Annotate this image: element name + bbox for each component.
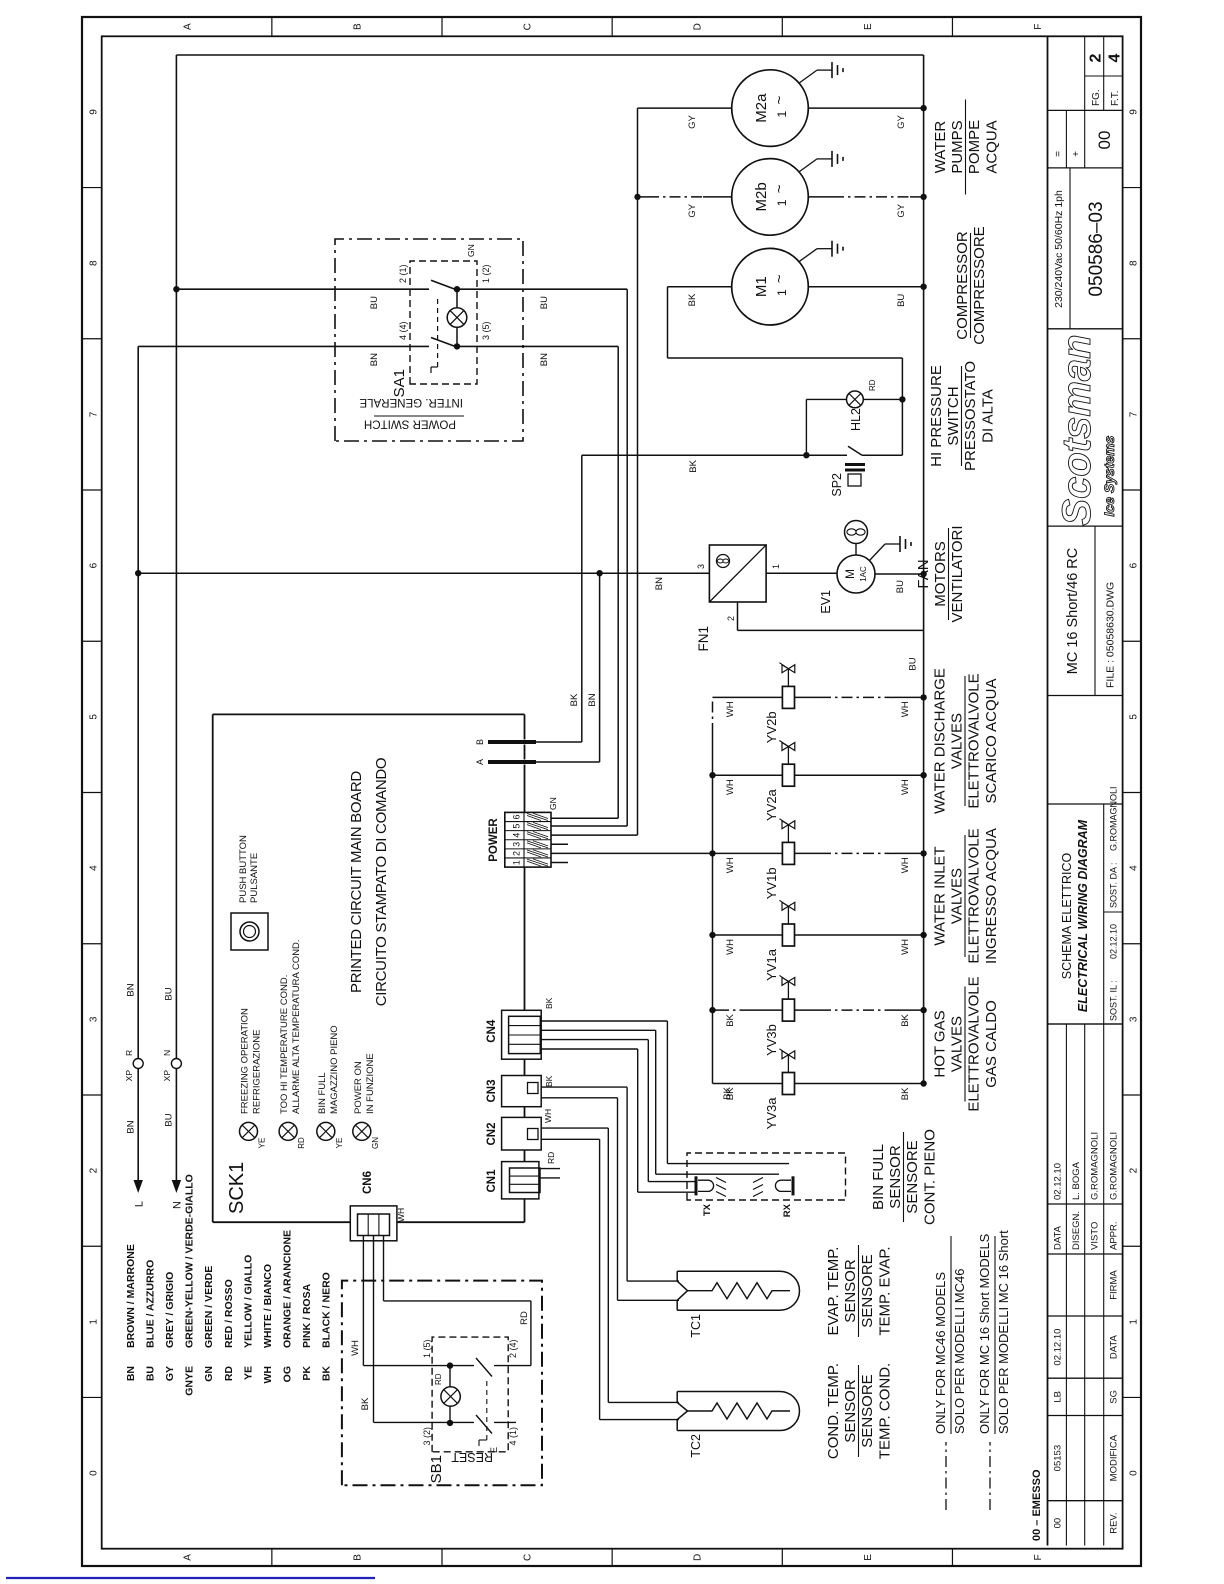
LED indicator 4 GN	[353, 1122, 371, 1140]
svg-text:GREEN / VERDE: GREEN / VERDE	[203, 1266, 215, 1348]
svg-text:COND. TEMP.: COND. TEMP.	[825, 1363, 842, 1459]
svg-text:1: 1	[512, 860, 522, 865]
motor M2b	[732, 159, 809, 236]
wire BU drop into SA1	[176, 288, 429, 290]
svg-text:YV3a: YV3a	[764, 1097, 779, 1130]
svg-text:RESET: RESET	[451, 1450, 493, 1464]
svg-text:M: M	[843, 569, 857, 579]
svg-text:YV1a: YV1a	[764, 948, 779, 981]
svg-text:BROWN / MARRONE: BROWN / MARRONE	[125, 1244, 137, 1348]
svg-text:DATA: DATA	[1052, 1225, 1063, 1250]
svg-text:M2a: M2a	[753, 93, 770, 123]
supply terminal N with arrow	[172, 1180, 181, 1193]
wire M2b feed	[638, 196, 649, 198]
svg-text:5: 5	[512, 824, 522, 829]
connector POWER on main board	[505, 812, 551, 867]
svg-text:A: A	[182, 1554, 193, 1561]
svg-text:VENTILATORI: VENTILATORI	[949, 526, 966, 623]
svg-text:BN: BN	[539, 353, 550, 366]
lamp RD inside SB1	[449, 1406, 451, 1423]
svg-text:SENSOR: SENSOR	[887, 1145, 904, 1209]
svg-text:3 (5): 3 (5)	[481, 321, 491, 340]
svg-text:SG: SG	[1109, 1390, 1120, 1404]
zone number strip ticks and digits	[82, 1396, 102, 1398]
svg-text:N: N	[172, 1201, 184, 1209]
svg-text:FAN: FAN	[915, 559, 932, 588]
svg-text:SCARICO ACQUA: SCARICO ACQUA	[983, 678, 1000, 803]
svg-text:VALVES: VALVES	[949, 868, 966, 924]
svg-text:WH: WH	[900, 857, 911, 873]
svg-text:WATER INLET: WATER INLET	[932, 846, 949, 945]
LED indicator 1 YE	[240, 1122, 258, 1140]
svg-text:GY: GY	[164, 1366, 176, 1381]
svg-text:YE: YE	[335, 1138, 344, 1149]
svg-text:BN: BN	[126, 1120, 137, 1133]
svg-text:FILE : 05058630.DWG: FILE : 05058630.DWG	[1105, 582, 1117, 688]
svg-text:DI ALTA: DI ALTA	[980, 389, 997, 443]
wire valve feed bus drop from POWER pin 2	[551, 852, 713, 854]
svg-text:G.ROMAGNOLI: G.ROMAGNOLI	[1090, 1132, 1101, 1200]
svg-text:FN1: FN1	[696, 626, 711, 652]
svg-text:~: ~	[771, 184, 788, 193]
lamp HL2	[847, 391, 864, 408]
svg-text:ELECTRICAL WIRING DIAGRAM: ELECTRICAL WIRING DIAGRAM	[1076, 819, 1090, 1012]
wire CN2 pin 1 to TC2	[541, 1127, 608, 1129]
svg-text:POWER: POWER	[488, 818, 500, 862]
svg-text:E: E	[863, 1554, 874, 1561]
wire N rail BU	[175, 55, 177, 1180]
svg-text:BK: BK	[321, 1366, 333, 1382]
svg-text:4 (4): 4 (4)	[398, 321, 408, 340]
svg-text:YV3b: YV3b	[764, 1024, 779, 1056]
svg-text:GN: GN	[203, 1366, 215, 1382]
connector CN4	[502, 1010, 542, 1059]
note only for MC46 models	[945, 1442, 947, 1510]
svg-text:02.12.10: 02.12.10	[1109, 924, 1119, 959]
wire SP2 output to M1 feed	[901, 358, 903, 455]
svg-text:WH: WH	[725, 939, 736, 955]
svg-text:Scotsman: Scotsman	[1055, 334, 1099, 525]
svg-text:02.12.10: 02.12.10	[1052, 1329, 1063, 1366]
svg-text:WH: WH	[396, 1208, 406, 1222]
svg-text:MAGAZZINO PIENO: MAGAZZINO PIENO	[329, 1025, 340, 1114]
svg-text:1: 1	[88, 1319, 99, 1325]
svg-text:YV2a: YV2a	[764, 788, 779, 821]
printed circuit main board box	[212, 714, 214, 1222]
node HL2 output	[899, 396, 905, 402]
wire FN1 pin 1 to EV1	[766, 572, 837, 574]
plug XP contact R on L line	[133, 1059, 143, 1069]
svg-text:DATA: DATA	[1109, 1334, 1120, 1359]
svg-text:EV1: EV1	[819, 590, 833, 614]
svg-text:VISTO: VISTO	[1090, 1222, 1101, 1250]
svg-text:POWER SWITCH: POWER SWITCH	[364, 418, 456, 430]
svg-text:SOLO PER MODELLI MC 16 Short: SOLO PER MODELLI MC 16 Short	[996, 1230, 1011, 1434]
svg-text:RD: RD	[297, 1137, 306, 1149]
svg-text:MOTORS: MOTORS	[932, 541, 949, 607]
svg-text:BU: BU	[896, 294, 907, 307]
svg-text:1: 1	[1129, 1319, 1140, 1325]
svg-text:BK: BK	[360, 1397, 371, 1410]
svg-text:GY: GY	[896, 114, 907, 128]
svg-text:EVAP. TEMP.: EVAP. TEMP.	[825, 1247, 842, 1336]
wire GY pumps feed from POWER pin 4	[551, 834, 638, 836]
svg-text:3: 3	[696, 564, 706, 569]
wire BK from terminal B to SP2	[536, 741, 582, 743]
ground M2b	[799, 159, 817, 172]
wire BN trunk from L rail to FN1	[138, 572, 709, 574]
LED indicator 3 YE	[317, 1122, 335, 1140]
svg-text:2: 2	[726, 616, 736, 621]
ground M1	[799, 249, 817, 262]
neutral return rail	[923, 55, 925, 1084]
OP1 RX LED	[792, 1176, 795, 1195]
svg-text:BLUE / AZZURRO: BLUE / AZZURRO	[145, 1260, 157, 1348]
terminal B spade on board	[488, 740, 536, 744]
svg-text:ELETTROVALVOLE: ELETTROVALVOLE	[966, 673, 983, 808]
fan motor EV1	[837, 555, 875, 593]
svg-text:L: L	[134, 1201, 146, 1207]
svg-text:IN FUNZIONE: IN FUNZIONE	[365, 1053, 376, 1114]
temperature sensor TC1	[676, 1300, 678, 1310]
svg-text:3 (2): 3 (2)	[422, 1427, 432, 1446]
svg-text:ALLARME ALTA TEMPERATURA COND.: ALLARME ALTA TEMPERATURA COND.	[291, 939, 302, 1114]
svg-text:RD: RD	[223, 1366, 235, 1382]
svg-text:HI PRESSURE: HI PRESSURE	[928, 365, 945, 467]
svg-text:~: ~	[771, 95, 788, 104]
svg-text:1: 1	[775, 110, 789, 117]
solenoid valve YV2a	[713, 774, 783, 776]
svg-text:WHITE / BIANCO: WHITE / BIANCO	[262, 1264, 274, 1348]
svg-text:SENSOR: SENSOR	[842, 1259, 859, 1323]
svg-text:M1: M1	[753, 276, 770, 297]
svg-text:YE: YE	[242, 1366, 254, 1380]
svg-text:POMPE: POMPE	[966, 120, 983, 174]
svg-text:8: 8	[1129, 260, 1140, 266]
svg-text:SP2: SP2	[830, 473, 844, 497]
connector CN6 on SCK1	[350, 1206, 397, 1241]
svg-text:BIN FULL: BIN FULL	[870, 1144, 887, 1210]
svg-text:WH: WH	[900, 779, 911, 795]
wire BN drop into SA1	[138, 345, 429, 347]
node SB1 pole 1	[447, 1362, 453, 1368]
svg-text:3: 3	[88, 1016, 99, 1022]
svg-text:WH: WH	[725, 779, 736, 795]
svg-text:BN: BN	[125, 1366, 137, 1381]
switch SB1 dashed body	[432, 1337, 508, 1452]
svg-text:SB1: SB1	[428, 1455, 445, 1483]
title cell drawing name MC 16 Short/46 RC	[1048, 525, 1123, 527]
svg-text:XP: XP	[162, 1070, 172, 1082]
svg-text:B: B	[475, 739, 485, 745]
svg-text:WH: WH	[350, 1340, 361, 1356]
node SA1 BU pole	[454, 286, 460, 292]
svg-text:05153: 05153	[1052, 1445, 1063, 1471]
svg-text:BU: BU	[369, 296, 380, 309]
svg-text:2 (1): 2 (1)	[398, 264, 408, 283]
svg-text:WATER DISCHARGE: WATER DISCHARGE	[932, 668, 949, 814]
svg-text:6: 6	[1129, 562, 1140, 568]
svg-text:GAS CALDO: GAS CALDO	[983, 1000, 1000, 1088]
svg-text:9: 9	[1129, 109, 1140, 115]
svg-text:TC1: TC1	[689, 1314, 703, 1338]
wire CN6 WH to SB1	[362, 1236, 364, 1366]
wire CN6 RD return from SB1	[383, 1236, 385, 1301]
svg-text:1: 1	[775, 199, 789, 206]
svg-text:N: N	[162, 1050, 172, 1056]
svg-text:VALVES: VALVES	[949, 1016, 966, 1072]
solenoid valve YV1a	[713, 934, 783, 936]
svg-text:E: E	[863, 23, 874, 30]
revision table	[1048, 1500, 1123, 1502]
svg-text:BLACK / NERO: BLACK / NERO	[321, 1272, 333, 1348]
wire CN4 pin 1 to OP1	[540, 1020, 667, 1022]
svg-text:1: 1	[775, 289, 789, 296]
POWER pin stubs	[551, 862, 568, 864]
switch SA1 pole BU blade	[431, 280, 455, 289]
svg-text:RD: RD	[546, 1152, 556, 1164]
svg-text:A: A	[182, 23, 193, 30]
solenoid valve YV2b	[713, 696, 783, 698]
SA1 mechanical link dashed	[437, 295, 439, 367]
valve feed bus	[712, 734, 714, 1084]
svg-text:PK: PK	[301, 1366, 313, 1381]
drawing frame inner border	[102, 36, 1123, 1548]
EV1 ground connection	[870, 544, 886, 561]
svg-text:DISEGN.: DISEGN.	[1071, 1211, 1082, 1250]
title cells FG 2 / FT 4	[1084, 36, 1086, 110]
svg-text:LB: LB	[1052, 1391, 1063, 1403]
svg-text:7: 7	[1129, 411, 1140, 417]
svg-text:TEMP. COND.: TEMP. COND.	[877, 1363, 894, 1459]
svg-text:~: ~	[771, 274, 788, 283]
svg-text:050586‒03: 050586‒03	[1086, 201, 1107, 296]
svg-text:D: D	[693, 23, 704, 30]
svg-text:00 – EMESSO: 00 – EMESSO	[1031, 1469, 1043, 1541]
svg-text:SOLO PER MODELLI MC46: SOLO PER MODELLI MC46	[952, 1269, 967, 1434]
svg-text:CN3: CN3	[486, 1079, 498, 1102]
fan controller FN1	[709, 545, 766, 602]
wire CN4 pin 3 to OP1	[540, 1039, 648, 1041]
svg-text:BU: BU	[908, 657, 919, 670]
wire BU from SA1 to POWER pin 5	[626, 289, 628, 826]
svg-text:GN: GN	[548, 797, 558, 810]
svg-text:9: 9	[88, 109, 99, 115]
svg-text:Ice Systems: Ice Systems	[1101, 435, 1117, 516]
wire M2a return	[808, 107, 923, 109]
svg-text:PUSH BUTTON: PUSH BUTTON	[238, 835, 249, 903]
svg-text:RX: RX	[782, 1203, 793, 1217]
svg-text:F: F	[1033, 24, 1044, 30]
node SB1 pole 2	[447, 1420, 453, 1426]
svg-text:SOST. IL :: SOST. IL :	[1109, 980, 1119, 1021]
svg-text:BK: BK	[569, 693, 580, 706]
solenoid valve YV3a	[713, 1083, 783, 1085]
svg-text:5: 5	[1129, 714, 1140, 720]
svg-text:OG: OG	[281, 1366, 293, 1382]
page link line (blue)	[6, 1577, 375, 1579]
wire SA1 BN pole lower	[457, 345, 618, 347]
svg-text:SENSORE: SENSORE	[859, 1374, 876, 1447]
svg-text:230/240Vac 50/60Hz 1ph: 230/240Vac 50/60Hz 1ph	[1053, 190, 1065, 308]
OP1 TX LED	[695, 1176, 698, 1195]
svg-text:2: 2	[512, 851, 522, 856]
svg-text:7: 7	[88, 411, 99, 417]
svg-text:1: 1	[771, 564, 781, 569]
svg-text:ONLY FOR MC46 MODELS: ONLY FOR MC46 MODELS	[933, 1272, 948, 1434]
title cells = + 00	[1048, 109, 1123, 111]
svg-text:PUMPS: PUMPS	[949, 120, 966, 173]
svg-text:TOO HI TEMPERATURE COND.: TOO HI TEMPERATURE COND.	[279, 975, 290, 1114]
svg-text:YV2b: YV2b	[764, 711, 779, 743]
svg-text:GY: GY	[687, 114, 698, 128]
wire BN from terminal A to FN1 trunk	[536, 761, 600, 763]
wire M1 return	[808, 286, 923, 288]
svg-text:2 (4): 2 (4)	[508, 1339, 518, 1358]
svg-text:4: 4	[1107, 53, 1124, 62]
svg-text:BK: BK	[725, 1013, 736, 1026]
svg-text:SCHEMA ELETTRICO: SCHEMA ELETTRICO	[1060, 853, 1074, 980]
svg-text:BK: BK	[544, 997, 554, 1009]
svg-text:0: 0	[88, 1470, 99, 1476]
svg-text:GREY / GRIGIO: GREY / GRIGIO	[164, 1272, 176, 1348]
wire to lamp HL2	[805, 399, 807, 455]
svg-text:FIRMA: FIRMA	[1109, 1270, 1120, 1300]
svg-text:BK: BK	[900, 1087, 911, 1100]
svg-text:BU: BU	[539, 296, 550, 309]
svg-text:00: 00	[1095, 131, 1114, 150]
svg-text:02.12.10: 02.12.10	[1052, 1163, 1063, 1200]
LED indicator 2 RD	[279, 1122, 297, 1140]
svg-text:M2b: M2b	[753, 182, 770, 211]
svg-text:SWITCH: SWITCH	[945, 386, 962, 445]
svg-text:6: 6	[88, 562, 99, 568]
node SA1 BN pole	[454, 343, 460, 349]
svg-text:1 (5): 1 (5)	[422, 1339, 432, 1358]
title cell schema elettrico	[1048, 1023, 1123, 1025]
wire CN2 pin 2 to TC2	[541, 1138, 599, 1140]
svg-text:APPR.: APPR.	[1109, 1221, 1120, 1250]
pressure switch SP2 contact	[848, 446, 862, 455]
svg-text:A: A	[475, 759, 485, 765]
svg-text:RD: RD	[434, 1373, 443, 1385]
svg-text:3: 3	[1129, 1016, 1140, 1022]
node N rail to SA1	[173, 286, 179, 292]
Scotsman logo	[1048, 328, 1123, 330]
svg-text:BU: BU	[164, 987, 175, 1000]
svg-text:G.ROMAGNOLI: G.ROMAGNOLI	[1109, 1132, 1120, 1200]
switch SA1 dashed body	[410, 261, 477, 384]
svg-text:1AC: 1AC	[859, 566, 868, 582]
SB1 contact pole 1	[450, 1365, 474, 1367]
connector CN3	[502, 1076, 542, 1107]
svg-text:2: 2	[1129, 1167, 1140, 1173]
svg-text:REV.: REV.	[1109, 1512, 1120, 1533]
motor M1	[732, 248, 809, 325]
connector CN2	[502, 1117, 542, 1150]
terminal A spade on board	[488, 760, 536, 764]
SB1 mechanical link	[486, 1380, 488, 1440]
svg-text:FREEZING OPERATION: FREEZING OPERATION	[240, 1008, 251, 1114]
svg-text:L. BOGA: L. BOGA	[1071, 1161, 1082, 1200]
wire HL2 to junction	[863, 398, 902, 400]
svg-text:PULSANTE: PULSANTE	[249, 853, 260, 903]
svg-text:PRESSOSTATO: PRESSOSTATO	[962, 361, 979, 471]
wire BN from SA1 to POWER pin 6	[617, 346, 619, 818]
svg-text:B: B	[352, 1554, 363, 1561]
connector CN1 stubs RD	[540, 1177, 560, 1179]
svg-text:XP: XP	[124, 1070, 134, 1082]
svg-text:5: 5	[88, 714, 99, 720]
node HL2 branch	[803, 452, 809, 458]
svg-text:+: +	[1071, 151, 1082, 157]
svg-text:G.ROMAGNOLI: G.ROMAGNOLI	[1109, 786, 1119, 851]
motor M2a	[732, 70, 809, 147]
wire EV1 to neutral rail BU	[875, 573, 924, 575]
svg-text:GN: GN	[371, 1137, 380, 1149]
connector CN1	[502, 1162, 539, 1199]
svg-text:YV1b: YV1b	[764, 867, 779, 899]
svg-text:BN: BN	[654, 577, 665, 590]
push button on board	[231, 913, 268, 950]
svg-text:1 (2): 1 (2)	[481, 264, 491, 283]
wire FN1 pin 2 to neutral rail	[737, 602, 739, 630]
svg-text:=: =	[1053, 151, 1064, 157]
svg-text:0: 0	[1129, 1470, 1140, 1476]
svg-text:BK: BK	[687, 293, 698, 306]
svg-text:F: F	[1033, 1554, 1044, 1560]
svg-text:MC 16 Short/46 RC: MC 16 Short/46 RC	[1065, 548, 1081, 675]
svg-text:D: D	[693, 1554, 704, 1561]
svg-text:4: 4	[1129, 865, 1140, 871]
wire M2a feed	[638, 107, 732, 109]
svg-text:SCK1: SCK1	[226, 1162, 248, 1214]
svg-text:CN6: CN6	[362, 1171, 374, 1194]
svg-text:INTER. GENERALE: INTER. GENERALE	[359, 396, 463, 408]
reset button SB1 enclosure	[342, 1281, 542, 1486]
SB1 contact pole 2	[450, 1421, 474, 1423]
svg-text:BK: BK	[688, 459, 699, 472]
svg-text:REFRIGERAZIONE: REFRIGERAZIONE	[252, 1030, 263, 1114]
svg-text:SENSORE: SENSORE	[904, 1140, 921, 1213]
svg-text:TEMP. EVAP.: TEMP. EVAP.	[877, 1246, 894, 1335]
svg-text:CONT. PIENO: CONT. PIENO	[922, 1129, 939, 1225]
svg-text:GY: GY	[687, 203, 698, 217]
svg-text:PINK / ROSA: PINK / ROSA	[301, 1283, 313, 1348]
svg-text:8: 8	[88, 260, 99, 266]
svg-text:SOST. DA :: SOST. DA :	[1109, 862, 1119, 908]
svg-text:SENSOR: SENSOR	[842, 1379, 859, 1443]
svg-text:PRINTED CIRCUIT MAIN BOARD: PRINTED CIRCUIT MAIN BOARD	[348, 771, 365, 993]
EV1 fan blade symbol	[855, 544, 857, 556]
svg-text:WH: WH	[725, 701, 736, 717]
svg-text:BU: BU	[895, 580, 906, 593]
svg-text:BN: BN	[587, 693, 598, 706]
svg-text:TC2: TC2	[689, 1434, 703, 1458]
svg-text:BK: BK	[725, 1087, 736, 1100]
svg-text:RED / ROSSO: RED / ROSSO	[223, 1279, 235, 1348]
svg-text:ACQUA: ACQUA	[984, 120, 1001, 173]
svg-text:ELETTROVALVOLE: ELETTROVALVOLE	[966, 828, 983, 963]
svg-text:GN: GN	[466, 244, 476, 257]
svg-text:HOT GAS: HOT GAS	[932, 1010, 949, 1077]
svg-text:GREEN-YELLOW / VERDE-GIALLO: GREEN-YELLOW / VERDE-GIALLO	[184, 1174, 196, 1348]
supply terminal L with arrow	[134, 1180, 143, 1193]
svg-text:BIN FULL: BIN FULL	[317, 1072, 328, 1114]
svg-text:R: R	[124, 1050, 134, 1056]
svg-text:4: 4	[88, 865, 99, 871]
svg-text:B: B	[352, 23, 363, 30]
